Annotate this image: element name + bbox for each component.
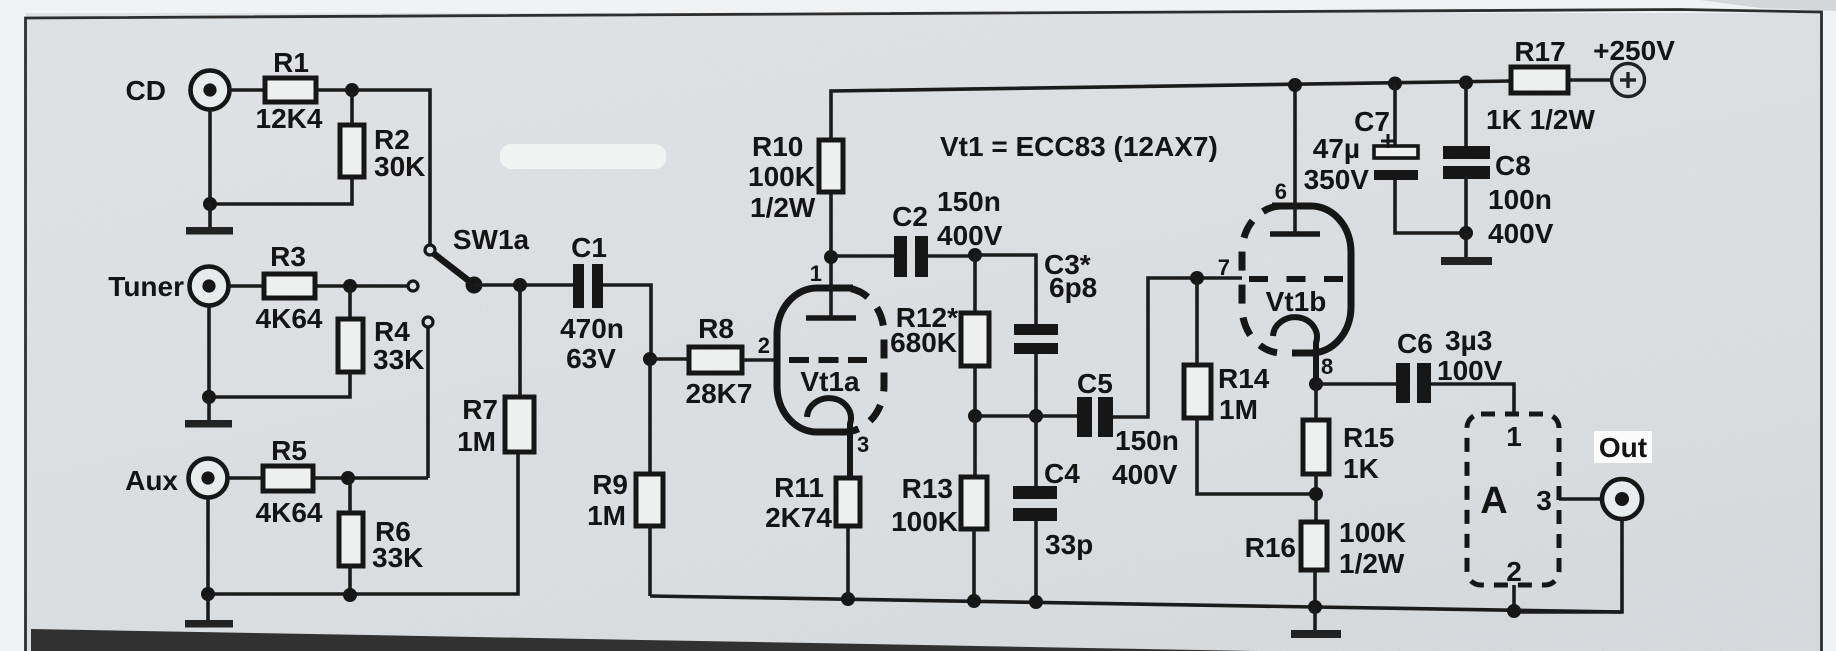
wire pivot to C1 [474, 283, 573, 287]
wire junction up to Aux contact [426, 327, 430, 478]
polarity + of C7 [1381, 134, 1395, 148]
node box A pin 2 on rail [1507, 604, 1521, 618]
wire node to C3 top [975, 255, 1036, 324]
svg-text:100K: 100K [891, 506, 958, 537]
node CD ground junction [203, 197, 217, 211]
svg-text:R1: R1 [273, 47, 309, 78]
wire R7 top [518, 285, 522, 397]
node R7 top junction [513, 278, 527, 292]
svg-text:C4: C4 [1044, 458, 1080, 489]
svg-text:Vt1a: Vt1a [800, 366, 860, 397]
resistor R14 [1184, 365, 1211, 418]
wire box A pin 3 to Out jack [1559, 497, 1601, 501]
svg-text:Out: Out [1599, 432, 1647, 463]
input jack CD [191, 71, 230, 110]
svg-text:4K64: 4K64 [256, 497, 323, 528]
resistor R4 [338, 319, 363, 372]
wire C6 to box A pin 1 [1431, 384, 1514, 414]
wire R15 top [1314, 384, 1318, 420]
svg-text:7: 7 [1218, 255, 1230, 280]
svg-text:R17: R17 [1514, 36, 1565, 67]
Vt1a anode lead [829, 257, 833, 318]
resistor R3 [264, 274, 315, 298]
wire to CD ground [208, 204, 212, 227]
svg-text:R14: R14 [1218, 363, 1270, 394]
svg-text:100K: 100K [1339, 517, 1406, 548]
box A dashed outline [1467, 414, 1559, 585]
wire R9 bottom to rail [648, 526, 652, 596]
wire C4 bottom to rail [1034, 521, 1038, 602]
wire junction to R4 [348, 286, 352, 319]
wire Aux jack sleeve down [206, 498, 210, 594]
wire C4 top [1034, 416, 1038, 486]
node C2 out junction [968, 248, 982, 262]
node R1-R2 junction [345, 83, 359, 97]
svg-text:63V: 63V [566, 343, 616, 374]
switch SW1a contact Tuner [408, 281, 418, 291]
svg-text:CD: CD [126, 75, 166, 106]
wire R8 to Vt1a grid [742, 358, 779, 362]
node Vt1b cathode junction [1309, 377, 1323, 391]
wire R14 bottom to cathode divider [1197, 418, 1316, 494]
ground CD [186, 227, 233, 235]
wire C8 top [1464, 82, 1468, 146]
wire C3 bottom [1034, 354, 1038, 416]
resistor R13 [961, 477, 987, 529]
svg-text:350V: 350V [1304, 164, 1370, 195]
wire R12 bottom [973, 366, 977, 416]
wire R4 bottom to Tuner ground [209, 372, 350, 397]
svg-text:R11: R11 [774, 472, 824, 503]
Vt1b anode bar [1270, 231, 1320, 237]
svg-text:Vt1 = ECC83 (12AX7): Vt1 = ECC83 (12AX7) [940, 131, 1218, 162]
svg-text:33K: 33K [373, 344, 424, 375]
svg-text:1K: 1K [1343, 453, 1379, 484]
resistor R17 [1511, 67, 1568, 93]
wire C1 to R8 node [603, 285, 651, 359]
Vt1a grid (dashed) [789, 357, 867, 363]
svg-text:8: 8 [1321, 354, 1333, 379]
svg-text:R5: R5 [271, 435, 307, 466]
capacitor C4 [1013, 486, 1057, 521]
wire junction to R6 [348, 478, 352, 513]
wire R12 top [973, 255, 977, 313]
svg-text:C6: C6 [1397, 328, 1433, 359]
svg-text:Aux: Aux [125, 465, 178, 496]
svg-text:1/2W: 1/2W [1339, 548, 1405, 579]
svg-text:R8: R8 [698, 313, 734, 344]
resistor R9 [636, 474, 663, 526]
capacitor C1 [573, 264, 603, 308]
wire Out jack sleeve to rail [1514, 519, 1622, 612]
wire junction to R8 [650, 357, 689, 361]
switch SW1a wiper [433, 253, 473, 284]
wire box A pin 2 down [1512, 585, 1516, 612]
triode Vt1b envelope dashed left half [1242, 206, 1284, 353]
switch SW1a contact Aux [423, 317, 433, 327]
svg-text:47µ: 47µ [1313, 133, 1360, 164]
node R16 on rail [1308, 600, 1322, 614]
resistor R1 [265, 78, 316, 102]
svg-text:2: 2 [758, 333, 770, 358]
wire to Tuner ground [207, 397, 211, 420]
svg-text:1M: 1M [1219, 394, 1258, 425]
svg-text:R13: R13 [902, 473, 953, 504]
svg-text:3µ3: 3µ3 [1445, 325, 1492, 356]
svg-text:2: 2 [1506, 556, 1522, 587]
node R6 bottom on rail [343, 588, 357, 602]
Vt1b cathode hook [1273, 317, 1317, 384]
svg-text:33p: 33p [1045, 529, 1093, 560]
svg-text:2K74: 2K74 [765, 502, 832, 533]
svg-text:R16: R16 [1245, 532, 1296, 563]
wire Tuner jack sleeve down [207, 306, 211, 397]
svg-text:150n: 150n [937, 186, 1001, 217]
resistor R12 [961, 313, 989, 366]
node C1-R8-R9 junction [643, 352, 657, 366]
node C8 on rail [1459, 76, 1473, 90]
wire anode to C2 [831, 254, 894, 258]
wire R6 bottom to rail [348, 566, 352, 595]
svg-text:100n: 100n [1488, 184, 1552, 215]
svg-text:1: 1 [1506, 421, 1522, 452]
page curl shading top right [1700, 0, 1836, 11]
node Tuner ground junction [202, 390, 216, 404]
resistor R8 [689, 347, 742, 373]
supply rail right segment [1568, 78, 1612, 82]
node R3-R4 junction [343, 279, 357, 293]
svg-text:C1: C1 [571, 232, 607, 263]
node R12-C3 junction left [968, 409, 982, 423]
wire R10 bottom [829, 192, 833, 257]
wire node to C5 [975, 414, 1077, 418]
triode Vt1b envelope solid right half [1272, 206, 1351, 353]
svg-text:R9: R9 [592, 469, 628, 500]
svg-text:1M: 1M [457, 426, 496, 457]
node C7-C8 ground junction [1459, 226, 1473, 240]
wire C7 bottom to ground node [1395, 180, 1466, 233]
wire R2 bottom to CD ground [210, 177, 352, 204]
wire right ground rail [650, 596, 1622, 612]
wire R10 top to supply rail [831, 81, 1511, 140]
resistor R6 [339, 513, 363, 566]
svg-text:3: 3 [857, 432, 869, 457]
capacitor C6 [1396, 363, 1431, 403]
svg-text:R4: R4 [374, 316, 410, 347]
svg-text:33K: 33K [372, 542, 423, 573]
Vt1a cathode hook [807, 398, 851, 478]
node R15-R16 junction [1309, 487, 1323, 501]
svg-text:1K 1/2W: 1K 1/2W [1486, 104, 1595, 135]
svg-text:3: 3 [1536, 485, 1552, 516]
wire Tuner jack to R3 [228, 284, 264, 288]
svg-text:C2: C2 [892, 201, 928, 232]
ground Aux [185, 620, 233, 628]
node R13 on rail [967, 594, 981, 608]
wire R13 bottom to rail [972, 529, 976, 601]
svg-text:1M: 1M [587, 500, 626, 531]
wire R9 top [648, 359, 652, 474]
node Aux ground junction [201, 587, 215, 601]
node Vt1a anode junction [824, 250, 838, 264]
wire to Aux ground [206, 594, 210, 620]
capacitor C5 [1077, 397, 1113, 437]
resistor R2 [340, 125, 364, 177]
svg-text:400V: 400V [1112, 459, 1178, 490]
capacitor C2 [894, 236, 928, 277]
wire R13 top [973, 416, 977, 477]
wire C8 bottom [1464, 176, 1468, 233]
svg-text:470n: 470n [560, 313, 624, 344]
svg-text:R10: R10 [752, 131, 803, 162]
node C7 on rail [1388, 77, 1402, 91]
Vt1b grid (dashed) [1249, 276, 1343, 282]
Vt1b anode lead from supply rail [1293, 85, 1297, 234]
resistor R7 [505, 397, 534, 452]
capacitor C3 [1014, 324, 1058, 354]
svg-text:1: 1 [810, 261, 822, 286]
node R5-R6 junction [341, 471, 355, 485]
wire left ground rail [208, 452, 518, 594]
wire junction to R2 [350, 90, 354, 125]
svg-text:Vt1b: Vt1b [1266, 286, 1327, 317]
wire to main ground [1313, 607, 1317, 630]
wire R5 to junction [313, 476, 428, 480]
capacitor C8 [1443, 146, 1490, 179]
wire to supply ground [1464, 233, 1468, 257]
wire cathode to C6 [1316, 382, 1396, 386]
resistor R11 [836, 478, 860, 526]
wire CD jack sleeve down [208, 110, 212, 204]
ground supply [1441, 257, 1492, 265]
svg-text:4K64: 4K64 [256, 303, 323, 334]
wire CD jack to R1 [229, 88, 265, 92]
svg-text:6p8: 6p8 [1049, 272, 1097, 303]
svg-text:150n: 150n [1115, 425, 1179, 456]
svg-text:C8: C8 [1495, 150, 1531, 181]
label Out on white tag [1594, 431, 1652, 463]
capacitor C7 (electrolytic) [1374, 146, 1418, 180]
node Vt1b anode on rail [1288, 78, 1302, 92]
svg-text:A: A [1480, 480, 1507, 522]
resistor R16 [1301, 522, 1327, 570]
svg-text:R7: R7 [462, 394, 498, 425]
svg-text:28K7: 28K7 [686, 378, 753, 409]
node C4 on rail [1029, 595, 1043, 609]
wire Aux jack to R5 [227, 476, 263, 480]
wire R3 to Tuner contact [315, 284, 408, 288]
svg-text:R15: R15 [1343, 422, 1394, 453]
svg-text:400V: 400V [937, 220, 1003, 251]
Vt1a anode bar [806, 315, 856, 321]
wire R1 to CD switch contact [316, 90, 430, 245]
input jack Aux [189, 459, 228, 498]
svg-text:680K: 680K [890, 327, 957, 358]
caption bar [31, 629, 1255, 651]
wire C7 top [1393, 83, 1397, 146]
wire R15 bottom [1314, 474, 1318, 522]
svg-text:R3: R3 [270, 241, 306, 272]
svg-text:100V: 100V [1437, 355, 1503, 386]
supply terminal +250V [1612, 64, 1645, 97]
svg-text:30K: 30K [374, 151, 425, 182]
wire C2 to node [928, 254, 975, 258]
resistor R5 [263, 466, 313, 491]
svg-text:1/2W: 1/2W [750, 192, 816, 223]
triode Vt1a envelope solid left half [777, 288, 853, 432]
wire R16 bottom to rail [1313, 570, 1317, 607]
wire C5 to Vt1b grid node [1113, 278, 1242, 417]
output jack Out [1602, 479, 1642, 519]
switch SW1a pivot node [466, 277, 483, 294]
resistor R15 [1303, 420, 1329, 474]
input jack Tuner [190, 267, 229, 306]
svg-text:100K: 100K [748, 161, 815, 192]
triode Vt1a envelope dashed right half [844, 288, 884, 432]
node C3-C4 junction [1029, 409, 1043, 423]
resistor R10 [819, 140, 843, 192]
svg-text:Tuner: Tuner [108, 271, 184, 302]
svg-text:+250V: +250V [1593, 35, 1675, 66]
node Vt1b grid junction [1190, 271, 1204, 285]
white correction patch [500, 144, 666, 169]
ground main [1291, 630, 1341, 638]
svg-text:SW1a: SW1a [453, 224, 530, 255]
switch SW1a contact CD [425, 245, 435, 255]
wire R14 top [1195, 278, 1199, 365]
ground Tuner [185, 420, 232, 428]
node R11 on rail [841, 592, 855, 606]
svg-text:C5: C5 [1077, 368, 1113, 399]
svg-text:400V: 400V [1488, 218, 1554, 249]
svg-text:6: 6 [1275, 179, 1287, 204]
svg-text:12K4: 12K4 [256, 103, 323, 134]
wire R11 bottom [846, 526, 850, 599]
